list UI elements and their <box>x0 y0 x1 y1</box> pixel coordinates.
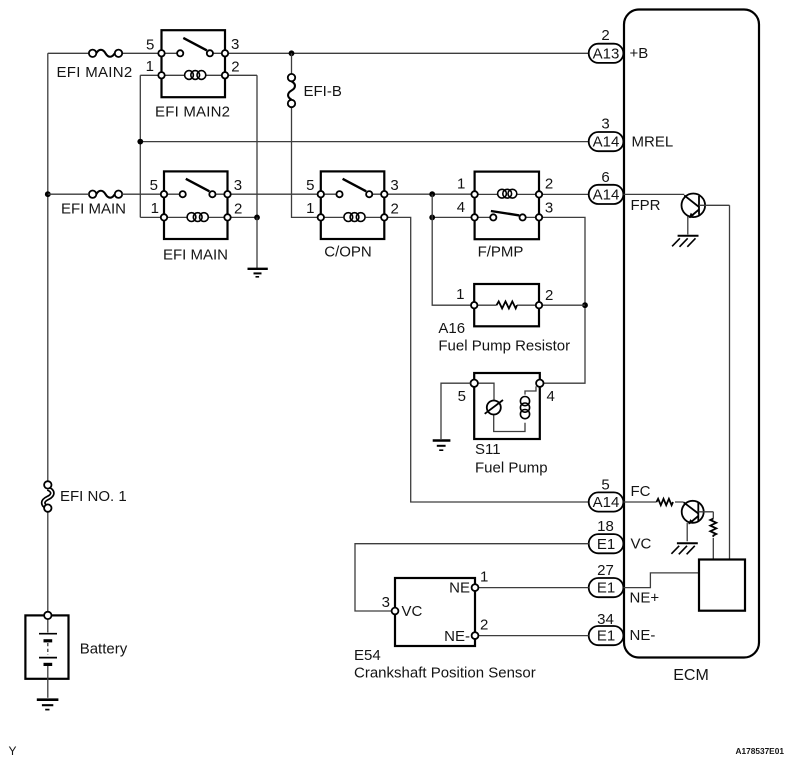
svg-text:1: 1 <box>480 569 488 586</box>
svg-text:NE-: NE- <box>630 627 656 644</box>
svg-text:1: 1 <box>306 200 314 217</box>
svg-text:3: 3 <box>601 116 609 133</box>
svg-text:4: 4 <box>457 199 465 216</box>
svg-text:1: 1 <box>457 175 465 192</box>
svg-text:1: 1 <box>151 200 159 217</box>
svg-text:S11: S11 <box>475 441 501 458</box>
svg-text:5: 5 <box>458 388 466 405</box>
svg-text:Crankshaft Position Sensor: Crankshaft Position Sensor <box>354 665 536 682</box>
relay F/PMP <box>457 172 553 261</box>
svg-text:2: 2 <box>545 175 553 192</box>
svg-text:EFI MAIN: EFI MAIN <box>163 247 228 264</box>
connector oval E1 NE+ <box>589 562 660 607</box>
svg-text:34: 34 <box>597 611 614 628</box>
svg-text:A13: A13 <box>593 45 620 62</box>
svg-text:2: 2 <box>391 201 399 218</box>
svg-text:2: 2 <box>234 201 242 218</box>
svg-text:E1: E1 <box>597 580 615 597</box>
svg-text:A14: A14 <box>593 134 620 151</box>
wire battery feed left vertical <box>47 53 49 611</box>
svg-text:E1: E1 <box>597 536 615 553</box>
driver block inside ECM <box>699 560 745 611</box>
svg-text:F/PMP: F/PMP <box>478 244 524 261</box>
wire EFI MAIN2 pin1 stub <box>140 74 158 76</box>
svg-text:VC: VC <box>402 603 423 620</box>
connector oval A14 MREL <box>589 116 673 152</box>
sensor E54 crankshaft position sensor <box>354 569 536 682</box>
resistor A16 fuel pump resistor <box>438 284 570 355</box>
wire resistor pin2 stub <box>542 304 585 306</box>
svg-text:A178537E01: A178537E01 <box>736 746 785 756</box>
fuse EFI MAIN <box>61 191 126 218</box>
svg-text:A14: A14 <box>593 187 620 204</box>
ground battery <box>37 700 59 710</box>
wire ground stem <box>256 217 258 268</box>
wire EFI MAIN pin2 to ground node <box>231 216 257 218</box>
svg-text:3: 3 <box>234 177 242 194</box>
ECM U1 box <box>624 10 759 685</box>
transistor Q2 FC driver with base resistor <box>623 499 716 560</box>
transistor Q1 FPR driver <box>623 194 729 560</box>
svg-text:3: 3 <box>382 594 390 611</box>
connector oval A14 FPR <box>589 169 661 214</box>
wire NE run <box>478 587 589 589</box>
wire F/PMP pin3 to fuel pump pin4 <box>542 217 585 383</box>
svg-text:EFI MAIN2: EFI MAIN2 <box>155 103 230 120</box>
svg-text:NE: NE <box>449 580 470 597</box>
fuel pump S11 <box>458 373 555 477</box>
node junction MREL branch <box>137 139 143 145</box>
svg-text:2: 2 <box>601 27 609 44</box>
svg-text:2: 2 <box>480 617 488 634</box>
wire EFI MAIN2 pin2 to coil ground rail <box>228 75 257 217</box>
fuse EFI NO. 1 fusible link <box>43 481 126 512</box>
svg-text:3: 3 <box>390 177 398 194</box>
svg-text:NE-: NE- <box>444 628 470 645</box>
svg-text:A14: A14 <box>593 494 620 511</box>
connector oval E1 NE- <box>589 611 656 645</box>
wire EFI MAIN pin1 stub <box>140 216 161 218</box>
wire C/OPN pin3 to F/PMP pin1 <box>388 193 472 195</box>
connector oval E1 VC <box>589 518 652 553</box>
fuse EFI MAIN2 <box>57 50 133 81</box>
svg-text:EFI NO. 1: EFI NO. 1 <box>60 488 127 505</box>
wire F/PMP pin4 stub <box>432 216 471 218</box>
wire F/PMP pin2 to FPR <box>542 193 589 195</box>
svg-text:5: 5 <box>150 177 158 194</box>
wire NE- run <box>478 635 589 637</box>
svg-text:FC: FC <box>631 483 651 500</box>
svg-text:27: 27 <box>597 562 614 579</box>
wire resistor feed vertical <box>432 194 471 305</box>
relay EFI MAIN2 <box>146 30 240 120</box>
wire EFI MAIN pin3 to C/OPN pin5 <box>231 193 318 195</box>
svg-text:3: 3 <box>231 36 239 53</box>
svg-text:E54: E54 <box>354 647 381 664</box>
node junction resistor feed row2 <box>429 215 435 221</box>
wire EFI MAIN fuse row <box>48 193 161 195</box>
ground Q2 emitter chassis <box>671 543 697 554</box>
svg-text:FPR: FPR <box>631 197 661 214</box>
fuse EFI-B <box>288 53 342 217</box>
wire C/OPN pin2 to FC <box>388 217 589 502</box>
svg-text:2: 2 <box>231 59 239 76</box>
svg-text:MREL: MREL <box>632 134 674 151</box>
svg-text:Fuel Pump: Fuel Pump <box>475 460 548 477</box>
svg-text:ECM: ECM <box>673 667 709 684</box>
wire VC run <box>355 544 589 611</box>
ground relay coils <box>248 269 268 277</box>
svg-text:2: 2 <box>545 287 553 304</box>
svg-text:6: 6 <box>601 169 609 186</box>
svg-text:5: 5 <box>601 477 609 494</box>
node junction left-vertical/EFI MAIN fuse <box>45 191 51 197</box>
svg-text:C/OPN: C/OPN <box>324 244 372 261</box>
svg-text:EFI MAIN: EFI MAIN <box>61 201 126 218</box>
node junction relay coil ground <box>254 215 260 221</box>
svg-text:EFI MAIN2: EFI MAIN2 <box>57 64 133 81</box>
wire NE+ to driver block <box>623 573 699 588</box>
svg-text:Y: Y <box>9 744 17 758</box>
wire fuel pump pin5 to ground <box>441 383 471 439</box>
svg-text:A16: A16 <box>438 320 465 337</box>
relay C/OPN <box>306 171 399 260</box>
wire +B top row <box>48 52 589 54</box>
node junction resistor out <box>582 302 588 308</box>
connector oval A14 FC <box>589 477 651 512</box>
svg-text:E1: E1 <box>597 628 615 645</box>
connector oval A13 +B <box>589 27 649 63</box>
svg-text:Fuel Pump Resistor: Fuel Pump Resistor <box>438 338 570 355</box>
ground Q1 emitter chassis <box>672 236 698 247</box>
svg-text:EFI-B: EFI-B <box>304 83 342 100</box>
svg-text:5: 5 <box>306 177 314 194</box>
svg-text:+B: +B <box>630 45 649 62</box>
svg-text:NE+: NE+ <box>630 590 660 607</box>
svg-text:1: 1 <box>456 286 464 303</box>
node junction resistor feed top <box>429 191 435 197</box>
node junction +B/EFI-B <box>289 50 295 56</box>
ground fuel pump <box>433 441 451 451</box>
svg-text:VC: VC <box>631 536 652 553</box>
svg-text:Battery: Battery <box>80 641 128 658</box>
relay EFI MAIN <box>150 171 243 263</box>
svg-text:1: 1 <box>146 58 154 75</box>
battery B1 <box>25 612 127 698</box>
wire MREL row <box>140 75 588 217</box>
svg-text:18: 18 <box>597 518 614 535</box>
svg-text:3: 3 <box>545 199 553 216</box>
svg-text:4: 4 <box>547 388 555 405</box>
svg-text:5: 5 <box>146 37 154 54</box>
